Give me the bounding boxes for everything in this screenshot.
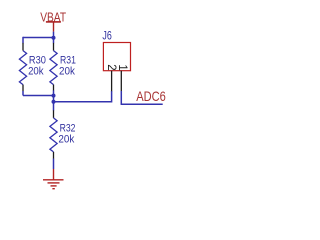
- resistor R32: [50, 118, 57, 152]
- ground bar 1: [43, 179, 64, 181]
- wire bottom-left horizontal: [23, 95, 54, 97]
- node junction middle upper: [52, 94, 56, 98]
- ground stem: [53, 169, 55, 180]
- resistor R31 pin bottom: [53, 85, 55, 91]
- resistor R32 pin bottom: [53, 152, 55, 159]
- node junction middle lower: [52, 100, 56, 104]
- wire R32 bottom to ground: [53, 159, 55, 169]
- power symbol VBAT bar: [46, 21, 61, 23]
- svg-text:20k: 20k: [58, 133, 75, 145]
- resistor R30 pin bottom: [22, 85, 24, 92]
- svg-text:R30: R30: [29, 55, 46, 67]
- resistor R30 pin top: [22, 43, 24, 51]
- wire VBAT junction down to R31: [53, 38, 55, 44]
- svg-text:20k: 20k: [28, 66, 44, 78]
- wire left vertical top: [22, 37, 24, 43]
- node junction top: [52, 36, 56, 40]
- pin 1 of J6 (black lead): [120, 71, 122, 92]
- svg-text:ADC6: ADC6: [136, 88, 166, 104]
- ground bar 4: [52, 188, 54, 190]
- wire top horizontal: [23, 37, 54, 39]
- resistor R30: [19, 51, 26, 85]
- pin 2 of J6 (black lead): [111, 71, 113, 92]
- svg-text:1: 1: [116, 64, 128, 70]
- ground bar 3: [51, 185, 57, 187]
- wire junction down to R32: [53, 102, 55, 111]
- svg-text:J6: J6: [102, 29, 111, 42]
- resistor R31 pin top: [53, 43, 55, 51]
- wire pin 1 down: [120, 91, 122, 104]
- wire R31 bottom to junction: [53, 90, 55, 101]
- wire middle horizontal to J6 pin 2: [54, 91, 112, 102]
- connector J6 box: [103, 43, 130, 71]
- ground bar 2: [48, 182, 60, 184]
- svg-text:20k: 20k: [59, 65, 76, 77]
- resistor R32 pin top: [53, 110, 55, 118]
- wire left vertical bottom: [22, 91, 24, 96]
- wire ADC6 net stub: [121, 103, 163, 105]
- wire VBAT stem to junction: [53, 32, 55, 38]
- power symbol VBAT stem: [53, 22, 55, 32]
- svg-text:2: 2: [105, 64, 117, 70]
- resistor R31: [50, 51, 57, 85]
